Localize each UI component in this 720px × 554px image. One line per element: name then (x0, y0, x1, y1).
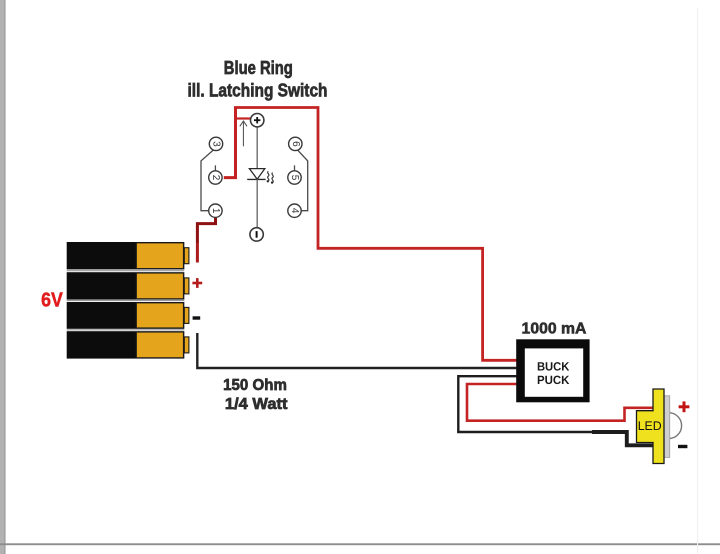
svg-text:Blue Ring: Blue Ring (224, 58, 293, 78)
svg-text:1000 mA: 1000 mA (522, 320, 587, 337)
svg-text:ill. Latching Switch: ill. Latching Switch (188, 81, 328, 101)
switch pole 1-3 linkage (left bracket) (201, 150, 214, 211)
battery cell 3 (67, 302, 189, 329)
switch pole 4-6 linkage (right bracket) (298, 150, 308, 211)
LED backing strip (664, 396, 670, 458)
wire: lamp rail to Buck Puck IN+ (red) (234, 108, 517, 361)
svg-text:1: 1 (210, 208, 221, 214)
actuation arrow (240, 121, 247, 146)
switch lamp - terminal (250, 228, 263, 241)
svg-text:6V: 6V (41, 290, 63, 312)
window frame right edge (697, 8, 698, 554)
svg-text:3: 3 (211, 141, 222, 147)
LED + marker (679, 401, 690, 412)
LED dome lens (669, 413, 682, 439)
switch pin 6 (289, 137, 302, 150)
switch pin 2 contact tick (214, 165, 216, 170)
wire: Buck Puck LED+ to LED anode (red) (467, 384, 653, 421)
switch pin 5 (288, 171, 301, 184)
battery + terminal marker (192, 278, 202, 288)
svg-text:LED: LED (638, 419, 662, 433)
wire: switch pin 2 riser (red) (224, 108, 236, 178)
svg-text:6: 6 (290, 141, 301, 147)
svg-text:150 Ohm: 150 Ohm (223, 377, 287, 394)
wire: LED cathode thick segment (black) (592, 432, 653, 445)
switch S1: illuminated latching switch (201, 114, 308, 242)
LED D1 (637, 389, 682, 464)
svg-text:PUCK: PUCK (537, 373, 570, 387)
LED - marker (678, 445, 687, 448)
svg-text:4: 4 (289, 208, 300, 214)
svg-text:1/4 Watt: 1/4 Watt (225, 396, 288, 413)
switch lamp LED symbol (247, 127, 273, 228)
switch lamp + terminal (251, 114, 264, 127)
LED yellow body (637, 389, 665, 464)
svg-text:2: 2 (210, 175, 221, 181)
battery cell 2 (67, 272, 189, 299)
switch pin 1 (209, 204, 222, 217)
wire: Buck Puck LED- to LED cathode (black) (458, 376, 653, 445)
svg-text:BUCK: BUCK (537, 360, 570, 374)
svg-text:5: 5 (289, 175, 300, 181)
wire: battery + to switch pin 1 (dark red) (197, 218, 215, 243)
wire: lamp + stub (red) (236, 117, 251, 119)
battery pack BT1 (4x AA, 6V) (67, 242, 189, 359)
wire: battery - to Buck Puck IN- (black) (197, 333, 517, 368)
switch pin 3 (209, 137, 222, 150)
switch pin 2 (209, 171, 222, 184)
battery cell 4 (67, 331, 189, 358)
battery cell 1 (67, 242, 189, 269)
battery cell separator lines (67, 271, 185, 330)
buck puck U1 (516, 339, 589, 402)
switch pin 4 (288, 204, 301, 217)
window frame left edge (0, 0, 4, 554)
window frame bottom edge (0, 543, 720, 545)
battery - terminal marker (193, 316, 201, 319)
switch pin 5 contact tick (294, 165, 296, 170)
